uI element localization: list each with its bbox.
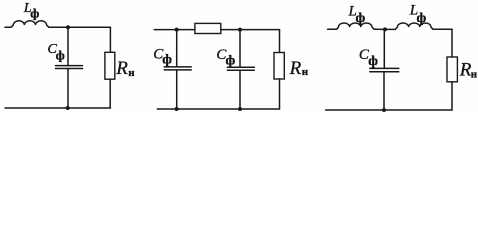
wire right vertical bottom circuit 2: [279, 79, 281, 109]
wire right vertical bottom circuit 3: [451, 82, 453, 110]
inductor L2: [338, 23, 374, 29]
resistor series circuit 2: [195, 23, 221, 33]
wire to series resistor circuit 2: [177, 29, 195, 31]
svg-text:ф: ф: [417, 11, 427, 26]
node junction bottom right circuit 2: [238, 107, 242, 111]
wire between inductors circuit 3: [374, 28, 395, 30]
svg-text:н: н: [128, 67, 135, 79]
node junction bottom left circuit 2: [175, 107, 179, 111]
wire capacitor C3 bottom lead: [239, 70, 241, 109]
node junction bottom circuit 3: [382, 108, 386, 112]
node junction right top circuit 2: [238, 28, 242, 32]
wire capacitor C3 top lead: [239, 30, 241, 67]
svg-text:ф: ф: [162, 53, 172, 68]
svg-text:ф: ф: [30, 5, 39, 20]
wire right vertical top circuit 1: [109, 27, 111, 52]
svg-text:ф: ф: [56, 48, 65, 63]
capacitor C1 plates: [56, 66, 83, 69]
node junction bottom circuit 1: [66, 106, 70, 110]
wire right vertical top circuit 2: [279, 30, 281, 53]
svg-text:ф: ф: [356, 11, 366, 26]
capacitor C2 plates: [164, 67, 191, 70]
resistor R1: [105, 52, 115, 79]
wire input lead circuit 3: [328, 27, 339, 29]
node junction left top circuit 2: [175, 28, 179, 32]
svg-text:R: R: [115, 58, 128, 79]
wire right vertical top circuit 3: [451, 29, 453, 57]
node junction top circuit 3: [383, 27, 387, 31]
wire bottom rail circuit 1: [5, 107, 110, 109]
inductor L3: [395, 23, 433, 29]
svg-text:ф: ф: [226, 54, 236, 69]
wire capacitor C4 top lead: [383, 29, 385, 67]
svg-text:R: R: [289, 58, 302, 79]
resistor R3: [447, 57, 457, 82]
wire bottom rail circuit 3: [326, 109, 452, 111]
wire series resistor to node 2 circuit 2: [221, 29, 240, 31]
svg-text:ф: ф: [368, 54, 378, 69]
wire input stub circuit 2: [154, 29, 176, 31]
wire top circuit 1: [49, 26, 111, 28]
node junction top circuit 1: [66, 25, 70, 29]
svg-text:н: н: [302, 66, 309, 78]
wire top right circuit 2: [240, 29, 280, 31]
capacitor C4 plates: [370, 68, 399, 71]
wire input lead circuit 1: [5, 25, 13, 27]
wire right vertical bottom circuit 1: [109, 79, 111, 108]
wire capacitor C1 bottom lead: [67, 69, 69, 109]
wire capacitor C1 top lead: [67, 27, 69, 65]
wire capacitor C2 top lead: [176, 30, 178, 67]
wire bottom rail circuit 2: [157, 108, 279, 110]
wire capacitor C4 bottom lead: [383, 72, 385, 110]
wire top right circuit 3: [433, 28, 452, 30]
resistor R2: [274, 53, 284, 80]
wire capacitor C2 bottom lead: [176, 70, 178, 109]
inductor L1: [13, 21, 49, 27]
svg-text:н: н: [471, 68, 478, 80]
capacitor C3 plates: [227, 67, 254, 70]
